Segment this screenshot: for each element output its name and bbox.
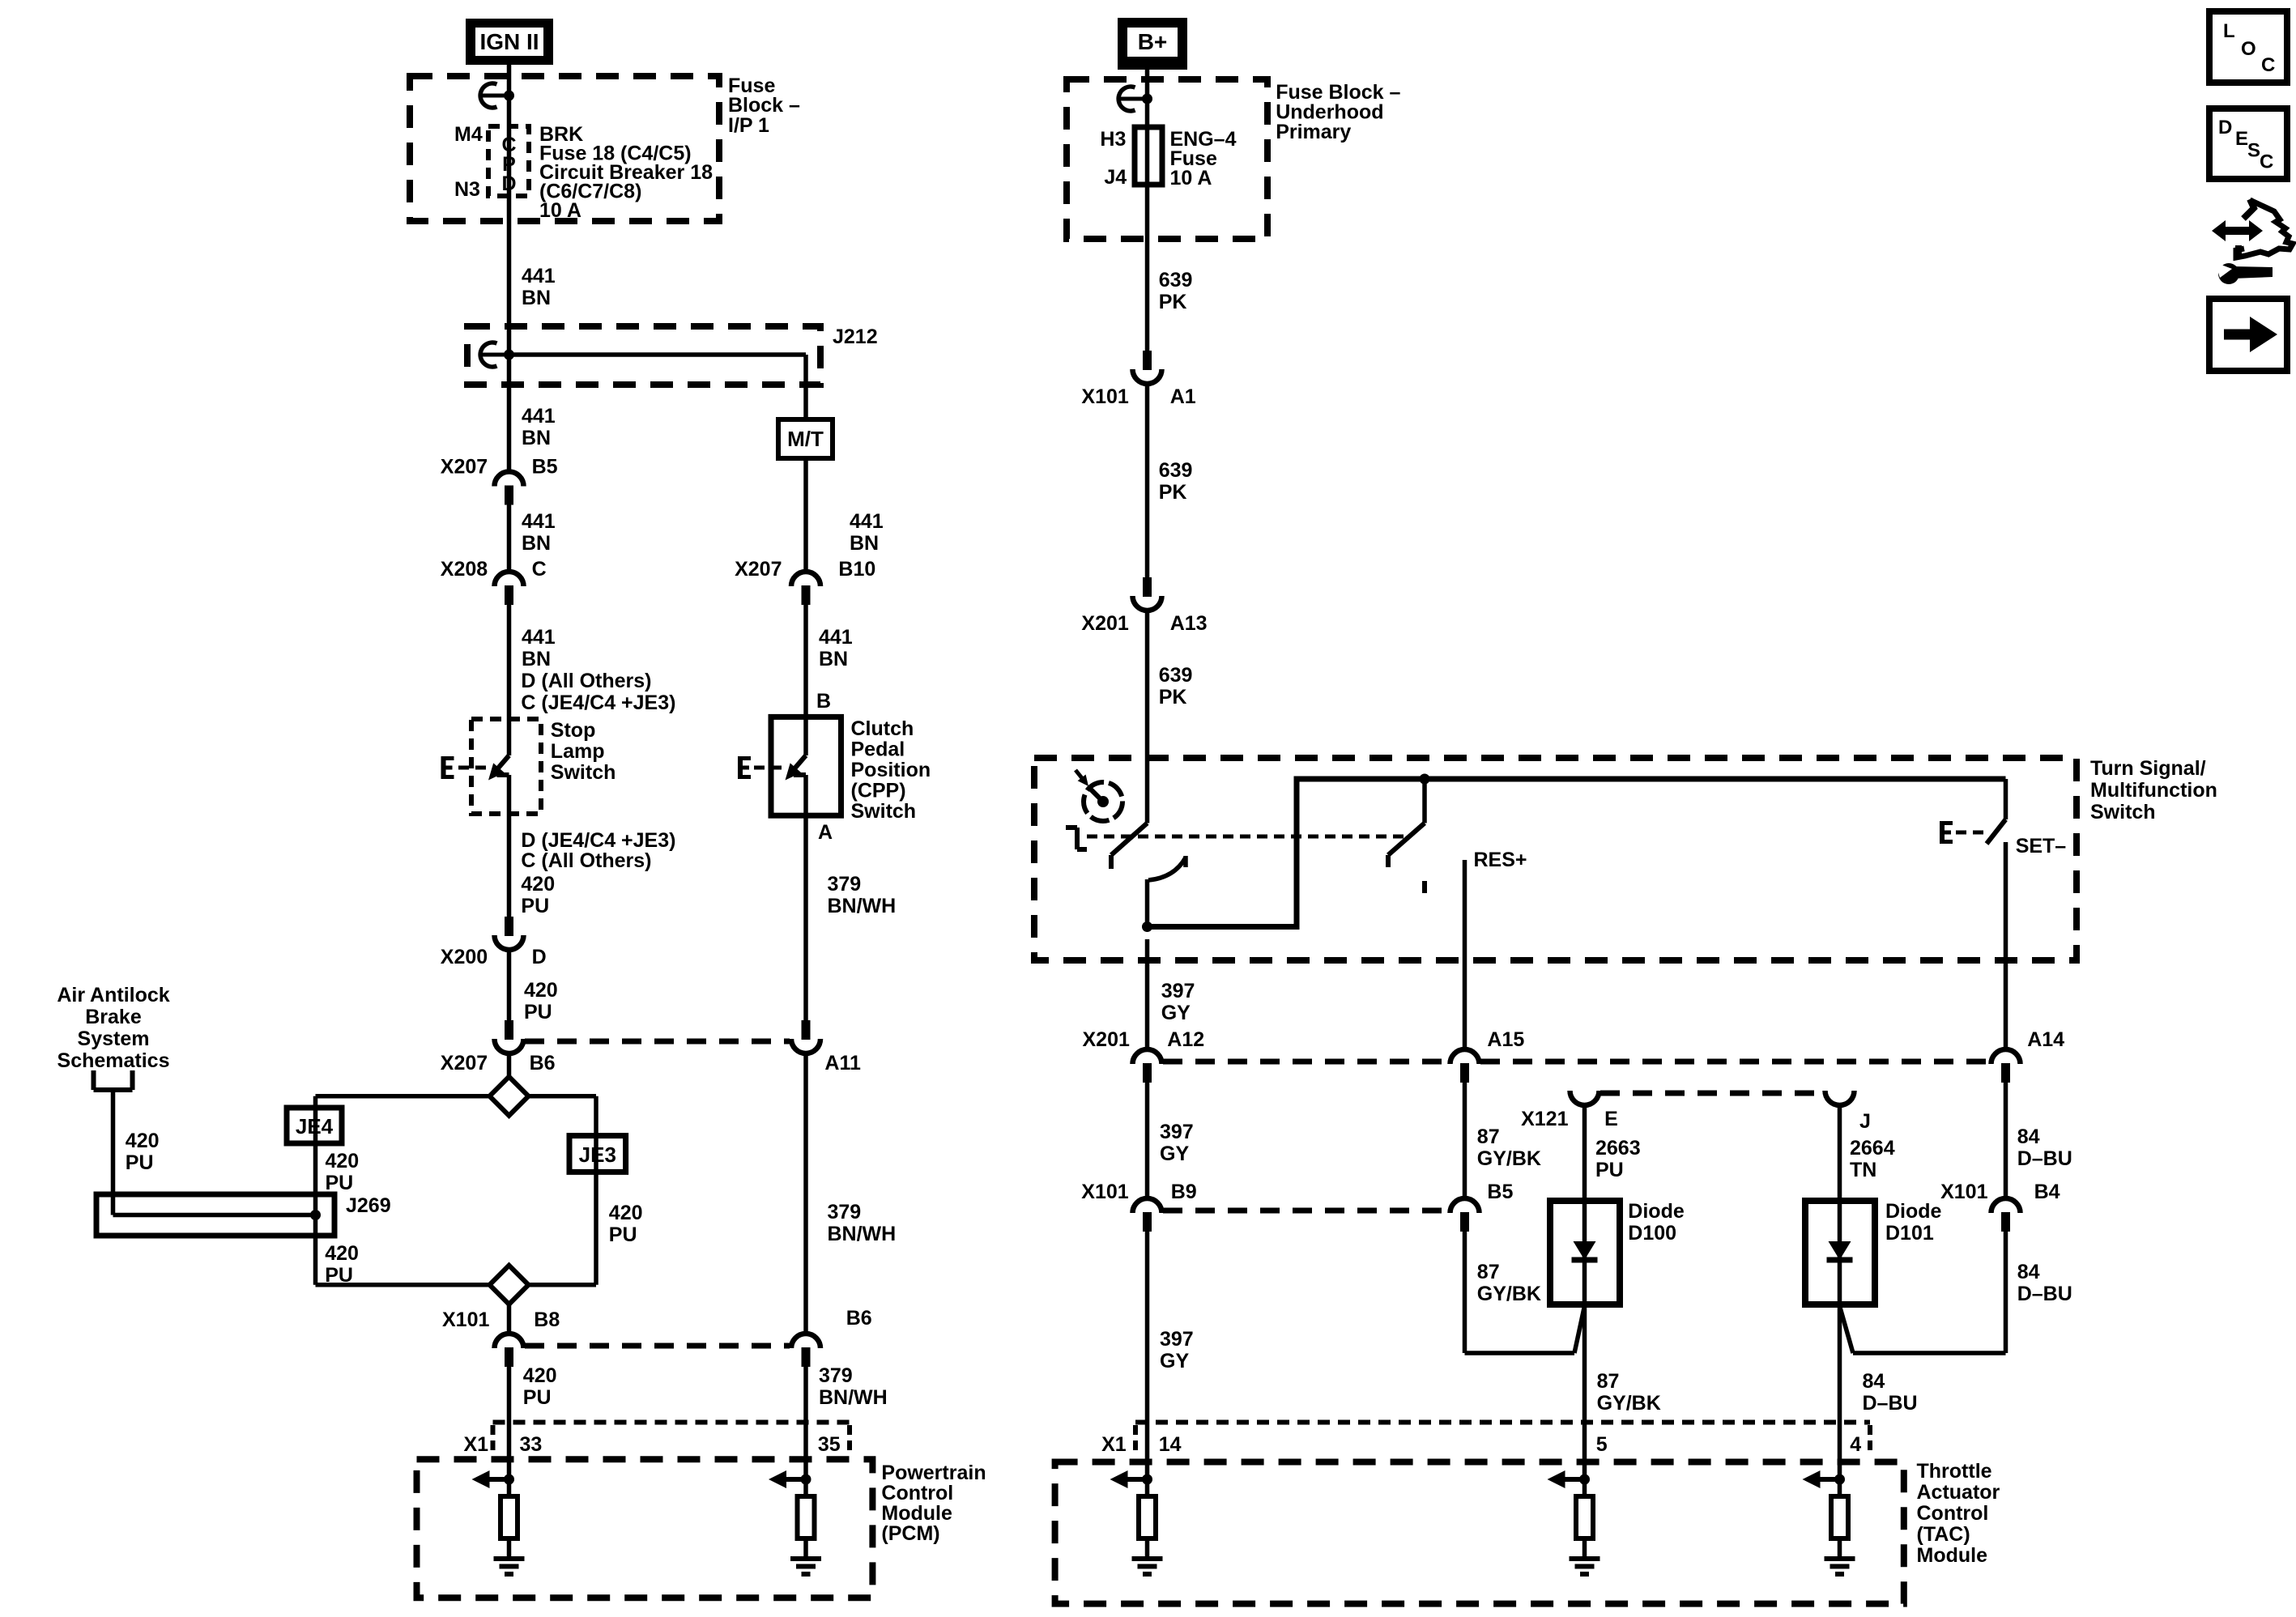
wire label 420 PU (JE4) xyxy=(326,1150,360,1194)
svg-text:GY: GY xyxy=(1160,1350,1189,1372)
wire RES+ to A15 xyxy=(1463,860,1467,1049)
TAC pin 14 internal arrow xyxy=(1110,1470,1148,1488)
svg-text:A1: A1 xyxy=(1170,385,1196,408)
connector label X201 (A13) xyxy=(1081,612,1128,635)
splice JE4 box xyxy=(287,1108,342,1143)
svg-text:420: 420 xyxy=(609,1202,643,1224)
CPP switch linkage dashes xyxy=(754,766,786,770)
connector X101 B8 xyxy=(495,1334,524,1367)
PCM pin 33 internal arrow xyxy=(472,1470,509,1488)
connector pin label J xyxy=(1859,1110,1871,1133)
CPP switch linkage E symbol xyxy=(740,756,751,779)
wire 441 BN fuse block to J212 xyxy=(507,196,512,355)
svg-text:B9: B9 xyxy=(1171,1181,1197,1203)
diode D101 symbol xyxy=(1827,1241,1853,1260)
wire junction riser xyxy=(1148,779,2006,927)
TAC pin 14 ground wire xyxy=(1145,1538,1150,1556)
connector X1 tick left xyxy=(491,1425,496,1450)
connector label X101 (A1) xyxy=(1081,385,1128,408)
wire 379 BN/WH B6 to PCM pin 35 xyxy=(803,1367,808,1496)
pin note D (All Others) xyxy=(521,670,651,692)
connector label X101 (B4) xyxy=(1940,1181,1987,1203)
TAC dashed box xyxy=(1055,1462,1904,1604)
svg-text:O: O xyxy=(2241,38,2256,60)
svg-text:M4: M4 xyxy=(454,123,483,146)
svg-text:BN/WH: BN/WH xyxy=(819,1386,888,1409)
svg-text:B4: B4 xyxy=(2034,1181,2060,1203)
svg-text:(TAC): (TAC) xyxy=(1917,1523,1970,1546)
svg-text:420: 420 xyxy=(126,1130,160,1152)
svg-text:X207: X207 xyxy=(735,558,782,581)
svg-text:Brake: Brake xyxy=(85,1006,142,1028)
wire 2664 TN J to diode D101 xyxy=(1838,1106,1842,1201)
svg-text:379: 379 xyxy=(828,1201,862,1223)
wire 639 PK A1 to X201 A13 xyxy=(1145,385,1150,577)
connector label X1 (TAC) xyxy=(1101,1433,1127,1456)
svg-text:X121: X121 xyxy=(1521,1108,1568,1130)
svg-text:S: S xyxy=(2247,140,2260,162)
connector label X101 (B8) xyxy=(442,1308,489,1331)
stop lamp switch linkage E symbol xyxy=(444,756,454,779)
connector label X200 xyxy=(441,946,488,968)
PCM label xyxy=(881,1462,986,1545)
svg-text:GY: GY xyxy=(1161,1002,1191,1024)
svg-text:X1: X1 xyxy=(464,1433,489,1456)
diode D100 box xyxy=(1550,1201,1620,1304)
stop lamp switch linkage dashes xyxy=(458,766,490,770)
wire label 420 PU (2) xyxy=(524,979,558,1023)
connector pin label B10 xyxy=(838,558,875,581)
TAC pin 5 resistor xyxy=(1576,1496,1593,1538)
svg-text:A14: A14 xyxy=(2027,1028,2064,1051)
svg-text:SET–: SET– xyxy=(2016,835,2067,857)
svg-text:A: A xyxy=(818,821,833,844)
svg-text:35: 35 xyxy=(818,1433,841,1456)
wire label 397 GY (1) xyxy=(1161,980,1195,1024)
pin label 5 xyxy=(1596,1433,1608,1456)
wire 84 D-BU diode to TAC pin 4 xyxy=(1838,1304,1842,1496)
svg-text:84: 84 xyxy=(2017,1261,2040,1283)
power feed label B+ xyxy=(1118,18,1187,70)
svg-text:C: C xyxy=(532,558,547,581)
TAC pin 5 junction dot xyxy=(1579,1474,1590,1485)
svg-text:B6: B6 xyxy=(846,1307,872,1330)
svg-text:B: B xyxy=(816,690,831,713)
wire label 84 D-BU (2) xyxy=(2017,1261,2072,1305)
wire 441 BN X208 to stop lamp switch xyxy=(507,605,512,755)
diode D101 box xyxy=(1805,1201,1875,1304)
wire through diode D101 xyxy=(1838,1201,1842,1304)
svg-text:System: System xyxy=(78,1028,150,1050)
wire 397 GY A12 to B9 xyxy=(1145,1083,1150,1198)
svg-text:Module: Module xyxy=(881,1502,952,1525)
svg-text:D: D xyxy=(532,946,547,968)
svg-text:Multifunction: Multifunction xyxy=(2090,779,2217,802)
SET- linkage E symbol xyxy=(1942,821,1953,844)
svg-text:Switch: Switch xyxy=(551,761,616,784)
wire 420 PU JE3 to lower run xyxy=(529,1136,597,1285)
connector X207 B6 xyxy=(495,1020,524,1053)
svg-text:X201: X201 xyxy=(1081,612,1128,635)
svg-text:2664: 2664 xyxy=(1850,1137,1895,1160)
SET- switch blade xyxy=(1987,819,2006,844)
SET- linkage dashes xyxy=(1956,831,1983,835)
svg-text:Lamp: Lamp xyxy=(551,740,605,763)
svg-text:X101: X101 xyxy=(442,1308,489,1331)
svg-text:Block –: Block – xyxy=(728,94,800,117)
diode D100 label xyxy=(1628,1200,1685,1245)
svg-text:X207: X207 xyxy=(441,456,488,479)
PCM dashed box xyxy=(417,1459,873,1598)
connector pin label A1 xyxy=(1170,385,1196,408)
svg-text:BN: BN xyxy=(522,532,551,555)
svg-text:C (All Others): C (All Others) xyxy=(521,849,651,872)
adjust icon part outline xyxy=(2236,199,2293,257)
svg-text:Schematics: Schematics xyxy=(58,1049,170,1072)
wire 420 PU J269 to lower run xyxy=(316,1215,490,1285)
svg-text:PU: PU xyxy=(523,1386,552,1409)
cruise on-off gauge icon xyxy=(1076,770,1122,821)
wire label 420 PU (off-page) xyxy=(126,1130,160,1174)
svg-text:420: 420 xyxy=(523,1364,557,1387)
svg-text:Turn Signal/: Turn Signal/ xyxy=(2090,757,2206,780)
svg-text:397: 397 xyxy=(1160,1328,1194,1351)
fuse block underhood dashed box xyxy=(1067,79,1267,239)
connector X1 tick right xyxy=(847,1425,852,1450)
svg-text:PU: PU xyxy=(326,1172,354,1194)
connector pin label B5 xyxy=(532,456,558,479)
wire 441 BN M/T to X207 B10 xyxy=(803,458,808,571)
pin note C (JE4/C4 +JE3) xyxy=(521,691,675,714)
wire label 84 D-BU (1) xyxy=(2017,1126,2072,1170)
off-page reference Air Antilock xyxy=(57,984,169,1072)
svg-text:397: 397 xyxy=(1160,1121,1194,1143)
CPP pin label A xyxy=(818,821,833,844)
svg-text:PK: PK xyxy=(1159,481,1187,504)
connector label X207 (B6) xyxy=(441,1052,488,1074)
svg-text:Diode: Diode xyxy=(1885,1200,1942,1223)
fuse ENG-4 label xyxy=(1170,128,1237,189)
svg-text:Actuator: Actuator xyxy=(1917,1481,2000,1504)
svg-text:(PCM): (PCM) xyxy=(881,1522,939,1545)
wire 420 PU switch to X200 xyxy=(507,775,512,917)
breaker terminal label N3 xyxy=(454,178,480,201)
splice tap inside fuse block xyxy=(480,83,514,108)
svg-text:Stop: Stop xyxy=(551,719,596,742)
stop lamp switch dashed box xyxy=(471,719,541,814)
fuse ENG-4 symbol xyxy=(1135,127,1162,185)
svg-text:Diode: Diode xyxy=(1628,1200,1685,1223)
svg-text:D101: D101 xyxy=(1885,1222,1934,1245)
connector A15 xyxy=(1450,1049,1480,1083)
PCM pin 33 resistor xyxy=(501,1496,518,1538)
svg-text:IGN II: IGN II xyxy=(479,29,539,54)
svg-text:10 A: 10 A xyxy=(1170,167,1212,189)
svg-text:441: 441 xyxy=(850,510,884,533)
svg-text:2663: 2663 xyxy=(1595,1137,1641,1160)
svg-text:B10: B10 xyxy=(838,558,875,581)
TAC pin 5 ground xyxy=(1570,1559,1600,1574)
TAC pin 14 ground xyxy=(1132,1559,1163,1574)
wire 87 GY/BK B5 branch xyxy=(1465,1232,1585,1353)
adjust icon wrench xyxy=(2215,262,2273,284)
svg-text:A13: A13 xyxy=(1170,612,1208,635)
svg-text:420: 420 xyxy=(521,873,555,896)
connector A14 xyxy=(1991,1049,2021,1083)
svg-text:L: L xyxy=(2223,20,2235,42)
splice J269 junction dot xyxy=(310,1210,321,1220)
wire 420 PU to PCM pin 33 xyxy=(507,1367,512,1496)
wire X207 B6 to splice diamond xyxy=(507,1054,512,1077)
wire label 84 D-BU (3) xyxy=(1863,1370,1918,1415)
wire label 397 GY (3) xyxy=(1160,1328,1194,1372)
TAC pin 5 ground wire xyxy=(1582,1538,1587,1556)
PCM pin 33 junction dot xyxy=(504,1474,514,1485)
wire diamond to JE4 branch xyxy=(316,1094,490,1099)
connector line X1 (PCM) xyxy=(493,1420,850,1425)
stop lamp switch label xyxy=(551,719,616,784)
svg-text:Air Antilock: Air Antilock xyxy=(57,984,169,1006)
wire label 639 PK (3) xyxy=(1159,664,1193,709)
cruise main switch blade xyxy=(1111,823,1148,870)
breaker terminal label M4 xyxy=(454,123,483,146)
svg-text:639: 639 xyxy=(1159,269,1193,291)
circuit breaker CPD dashed box xyxy=(488,126,529,196)
wire label 397 GY (2) xyxy=(1160,1121,1194,1165)
wire label 379 BN/WH (3) xyxy=(819,1364,888,1409)
wire label 420 PU (3) xyxy=(523,1364,557,1409)
connector J xyxy=(1825,1091,1855,1105)
splice JE3 box xyxy=(569,1136,626,1172)
svg-text:C (JE4/C4 +JE3): C (JE4/C4 +JE3) xyxy=(521,691,675,714)
diode D101 label xyxy=(1885,1200,1942,1245)
wire 87 GY/BK diode to TAC pin 5 xyxy=(1582,1304,1587,1496)
TAC pin 4 internal arrow xyxy=(1803,1470,1840,1488)
wire label 441 BN (2) xyxy=(522,405,556,449)
fuse block I/P 1 dashed box xyxy=(410,76,719,221)
connector pin label A14 xyxy=(2027,1028,2064,1051)
wire 420 PU X200 to X207 B6 xyxy=(507,951,512,1020)
wire through fuse ENG-4 xyxy=(1145,127,1150,185)
wire SET- to A14 xyxy=(2004,842,2008,1049)
svg-text:D–BU: D–BU xyxy=(2017,1283,2072,1305)
svg-text:BN: BN xyxy=(522,287,551,309)
PCM pin 35 ground xyxy=(790,1559,821,1574)
splice J212 dashed box xyxy=(467,326,820,385)
svg-text:441: 441 xyxy=(522,265,556,287)
svg-text:X201: X201 xyxy=(1083,1028,1130,1051)
splice J269 inner wire xyxy=(113,1213,316,1218)
connector pin label A13 xyxy=(1170,612,1208,635)
svg-text:N3: N3 xyxy=(454,178,480,201)
connector line X101/B6 xyxy=(525,1343,790,1349)
wire diamond to X101 B8 xyxy=(507,1304,512,1333)
fuse terminal label H3 xyxy=(1100,128,1126,151)
svg-text:RES+: RES+ xyxy=(1474,849,1527,871)
svg-text:Switch: Switch xyxy=(2090,801,2156,823)
svg-text:A12: A12 xyxy=(1167,1028,1204,1051)
splice diamond upper xyxy=(490,1077,529,1116)
splice J212 label xyxy=(833,326,878,348)
svg-text:PU: PU xyxy=(609,1223,637,1246)
wire through diode D100 xyxy=(1582,1201,1587,1304)
svg-text:Position: Position xyxy=(851,759,931,781)
wire J212 branch to M/T xyxy=(509,355,807,419)
connector line X201 xyxy=(1163,1059,1990,1065)
connector X101 B4 xyxy=(1991,1198,2021,1232)
splice J269 box xyxy=(96,1194,334,1236)
connector B6 (X101) xyxy=(791,1334,820,1367)
svg-text:GY/BK: GY/BK xyxy=(1477,1147,1541,1170)
fuse block I/P 1 label xyxy=(728,74,800,137)
wire 420 PU off-page to J269 xyxy=(111,1090,116,1215)
connector X201 A12 xyxy=(1133,1049,1162,1083)
svg-text:379: 379 xyxy=(819,1364,853,1387)
svg-text:J4: J4 xyxy=(1104,166,1127,189)
TAC pin 14 junction dot xyxy=(1142,1474,1152,1485)
connector X101 B9 xyxy=(1133,1198,1162,1232)
svg-text:PU: PU xyxy=(126,1151,154,1174)
connector X201 A13 xyxy=(1133,577,1162,611)
breaker letters CPD xyxy=(501,134,516,195)
connector X207 B10 xyxy=(791,572,820,605)
clutch pedal position switch label xyxy=(851,717,931,823)
connector X101 A1 xyxy=(1133,351,1162,384)
power feed label IGN II xyxy=(466,19,553,65)
svg-text:84: 84 xyxy=(2017,1126,2040,1148)
svg-text:420: 420 xyxy=(524,979,558,1002)
svg-text:I/P 1: I/P 1 xyxy=(728,114,769,137)
svg-text:639: 639 xyxy=(1159,664,1193,687)
svg-text:B5: B5 xyxy=(1487,1181,1513,1203)
svg-text:X207: X207 xyxy=(441,1052,488,1074)
PCM pin 35 ground wire xyxy=(803,1538,808,1556)
DESC icon box xyxy=(2209,109,2287,179)
connector pin label B4 xyxy=(2034,1181,2060,1203)
PCM pin 33 ground wire xyxy=(507,1538,512,1556)
svg-text:4: 4 xyxy=(1850,1433,1861,1456)
wire label 441 BN (M/T) xyxy=(850,510,884,555)
svg-text:C: C xyxy=(2261,54,2275,76)
svg-text:Control: Control xyxy=(881,1482,953,1504)
svg-text:Pedal: Pedal xyxy=(851,738,905,761)
wire label 2663 PU xyxy=(1595,1137,1641,1181)
connector line X207/A11 xyxy=(525,1039,790,1045)
TAC pin 4 ground xyxy=(1825,1559,1855,1574)
svg-text:B6: B6 xyxy=(530,1052,556,1074)
svg-text:BN: BN xyxy=(850,532,879,555)
svg-text:Primary: Primary xyxy=(1276,121,1351,143)
connector X207 B5 xyxy=(495,472,524,505)
svg-text:441: 441 xyxy=(819,626,853,649)
svg-text:5: 5 xyxy=(1596,1433,1608,1456)
mechanical linkage dashes xyxy=(1087,835,1407,839)
connector line X101 (B9-B5) xyxy=(1163,1208,1449,1214)
svg-text:X208: X208 xyxy=(441,558,488,581)
connector X1 tick right (TAC) xyxy=(1868,1425,1872,1450)
svg-text:420: 420 xyxy=(325,1242,359,1265)
connector label X1 (PCM) xyxy=(464,1433,489,1456)
wire label 639 PK (1) xyxy=(1159,269,1193,313)
svg-text:TN: TN xyxy=(1850,1159,1876,1181)
svg-text:Control: Control xyxy=(1917,1502,1989,1525)
svg-text:X101: X101 xyxy=(1940,1181,1987,1203)
diode D100 symbol xyxy=(1572,1241,1598,1260)
pin label 35 xyxy=(818,1433,841,1456)
svg-text:BN: BN xyxy=(819,648,848,670)
connector pin label A11 xyxy=(824,1052,861,1074)
splice tap underhood xyxy=(1118,87,1152,111)
wire IGN II into fuse block xyxy=(507,65,512,126)
SET- label xyxy=(2016,835,2067,857)
PCM pin 35 junction dot xyxy=(801,1474,811,1485)
svg-text:H3: H3 xyxy=(1100,128,1126,151)
svg-text:M/T: M/T xyxy=(787,427,824,451)
connector pin label B8 xyxy=(534,1308,560,1331)
off-page bracket xyxy=(94,1070,133,1090)
svg-text:BN: BN xyxy=(522,427,551,449)
wire through breaker CPD xyxy=(507,126,512,196)
wire label 441 BN (3) xyxy=(522,510,556,555)
svg-text:14: 14 xyxy=(1159,1433,1182,1456)
pin note D (JE4/C4 +JE3) xyxy=(521,829,675,852)
svg-text:GY/BK: GY/BK xyxy=(1597,1392,1661,1415)
svg-text:X1: X1 xyxy=(1101,1433,1127,1456)
turn signal multifunction switch label xyxy=(2090,757,2217,823)
wire label 87 GY/BK (2) xyxy=(1477,1261,1541,1305)
svg-text:C: C xyxy=(2260,151,2273,173)
connector label X201 (A12) xyxy=(1083,1028,1130,1051)
wire 441 BN B10 to CPP switch xyxy=(803,605,808,755)
adjust icon double arrow xyxy=(2212,220,2263,241)
wire 379 BN/WH A11 to B6 xyxy=(803,1054,808,1333)
svg-text:PU: PU xyxy=(521,895,549,917)
connector label X208 xyxy=(441,558,488,581)
wire 397 GY B9 to TAC pin 14 xyxy=(1145,1232,1150,1496)
connector X208 C xyxy=(495,572,524,605)
cruise switch spring arc xyxy=(1148,856,1186,880)
svg-text:D100: D100 xyxy=(1628,1222,1676,1245)
svg-text:84: 84 xyxy=(1863,1370,1885,1393)
RES+ switch blade xyxy=(1388,823,1425,868)
svg-text:Switch: Switch xyxy=(851,800,917,823)
svg-text:639: 639 xyxy=(1159,459,1193,482)
svg-text:441: 441 xyxy=(522,405,556,428)
PCM pin 35 internal arrow xyxy=(769,1470,806,1488)
wire 441 BN X207 to X208 xyxy=(507,505,512,572)
svg-text:397: 397 xyxy=(1161,980,1195,1002)
wire 441 BN J212 to X207 B5 xyxy=(507,355,512,471)
fuse block underhood label xyxy=(1276,81,1400,143)
CPP pin label B xyxy=(816,690,831,713)
clutch pedal position switch box xyxy=(771,717,841,815)
svg-text:441: 441 xyxy=(522,626,556,649)
svg-text:441: 441 xyxy=(522,510,556,533)
wire 2663 PU E to diode D100 xyxy=(1582,1106,1587,1201)
svg-text:PU: PU xyxy=(1595,1159,1624,1181)
wire 639 PK fuse to X101 A1 xyxy=(1145,185,1150,351)
connector pin label B9 xyxy=(1171,1181,1197,1203)
wire label 87 GY/BK (3) xyxy=(1597,1370,1661,1415)
junction dot cruise xyxy=(1142,921,1152,932)
wire 420 PU JE4 to J269 xyxy=(313,1096,318,1215)
svg-text:BN/WH: BN/WH xyxy=(828,895,897,917)
TAC pin 14 resistor xyxy=(1139,1496,1156,1538)
svg-text:A15: A15 xyxy=(1487,1028,1524,1051)
TAC label xyxy=(1917,1460,2000,1567)
svg-text:B5: B5 xyxy=(532,456,558,479)
svg-text:X200: X200 xyxy=(441,946,488,968)
